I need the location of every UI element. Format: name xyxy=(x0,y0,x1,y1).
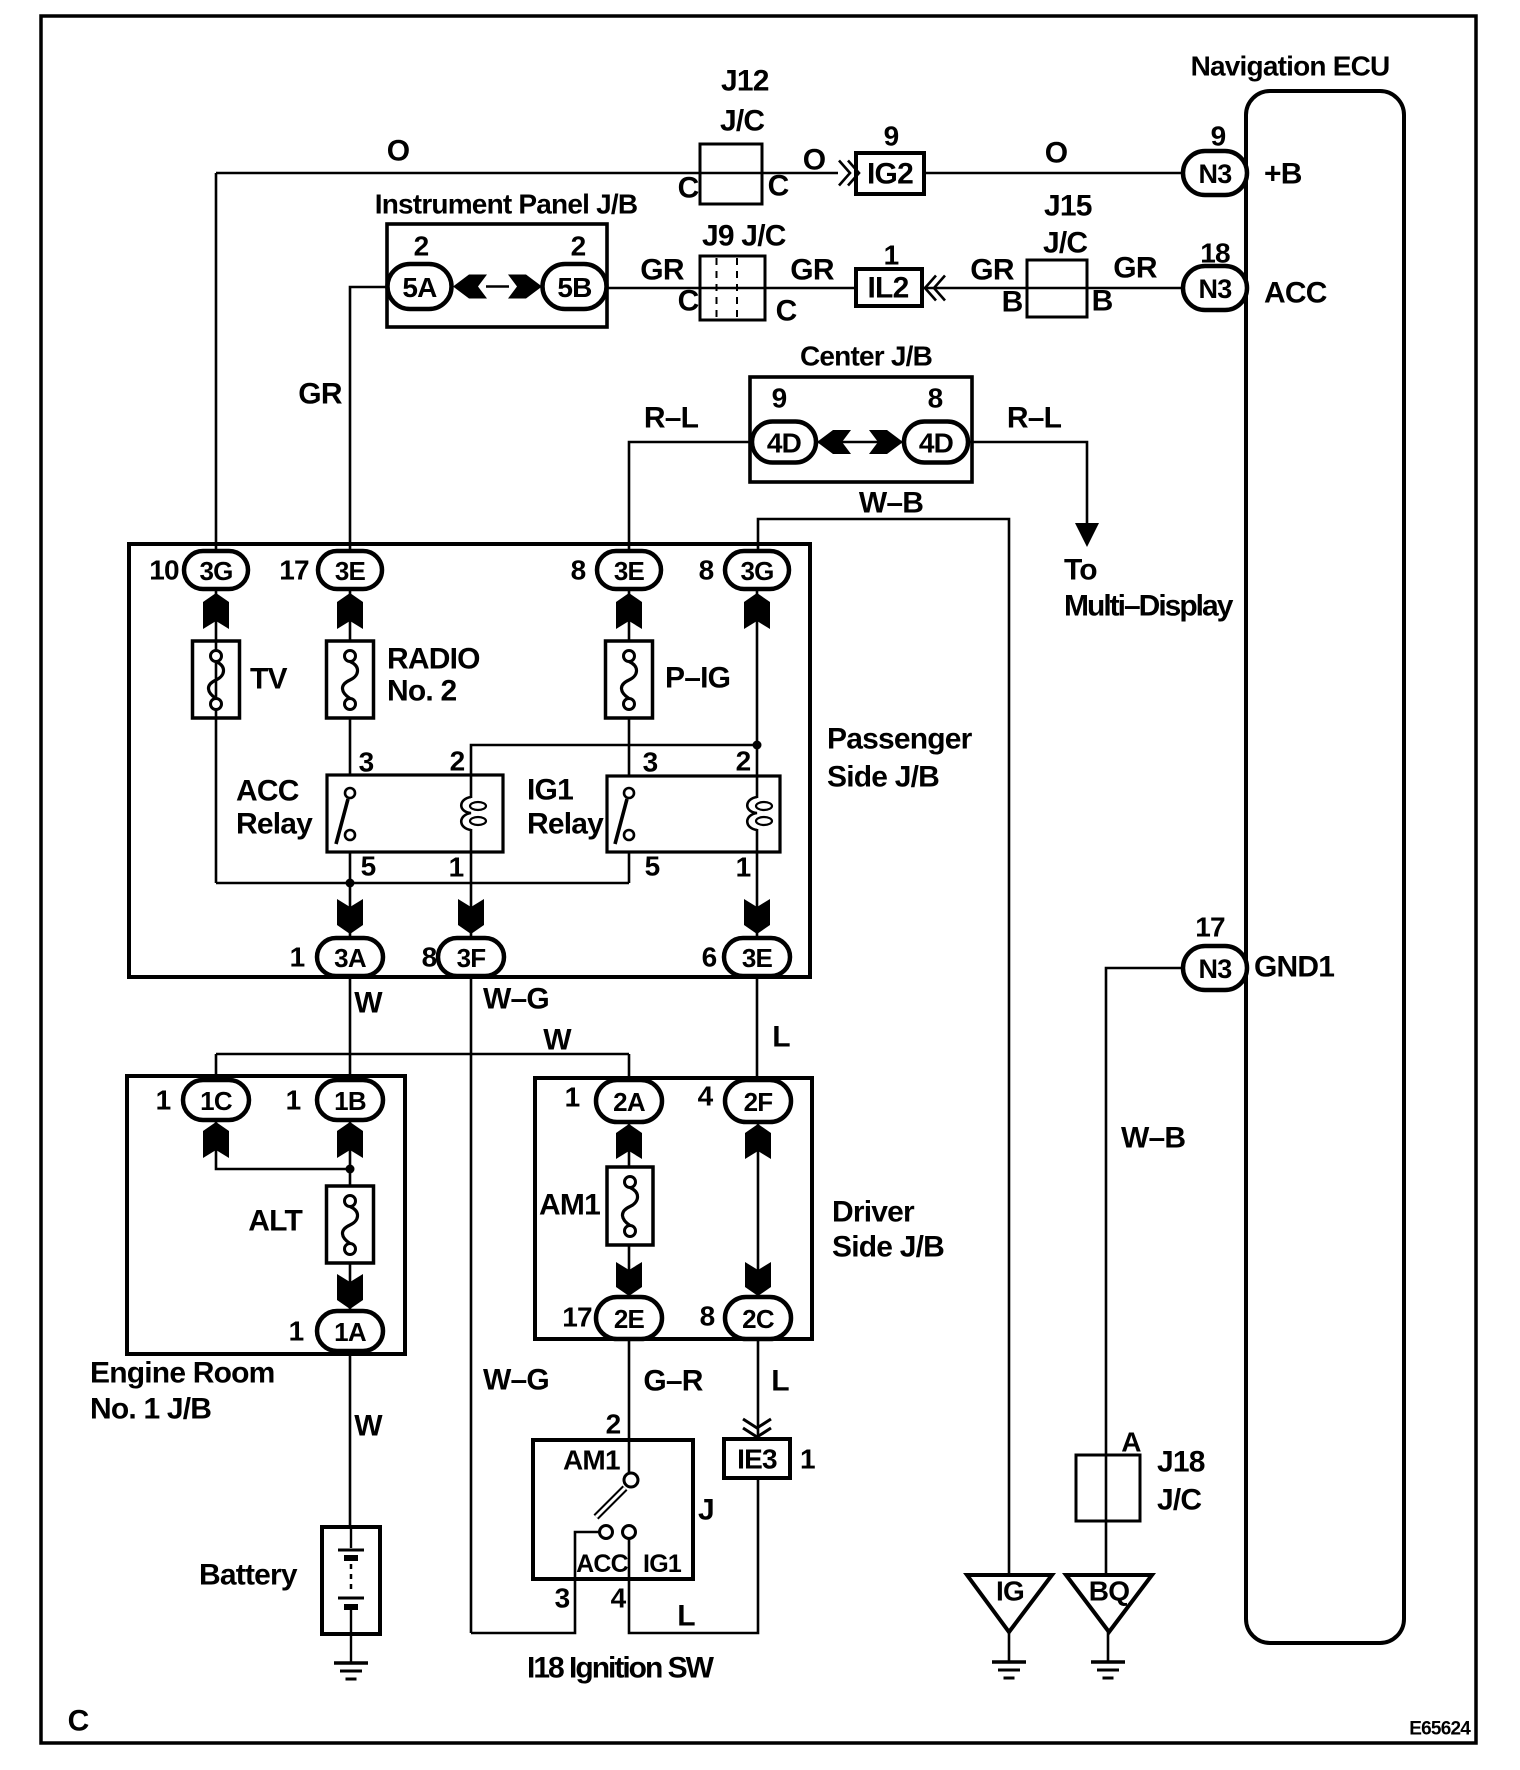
svg-text:3E: 3E xyxy=(614,556,645,586)
svg-text:IG1: IG1 xyxy=(643,1550,682,1578)
svg-text:L: L xyxy=(677,1600,695,1633)
svg-text:5A: 5A xyxy=(402,272,437,303)
svg-text:GND1: GND1 xyxy=(1254,951,1334,984)
svg-text:N3: N3 xyxy=(1199,274,1233,304)
svg-text:1B: 1B xyxy=(334,1086,366,1116)
svg-text:Side J/B: Side J/B xyxy=(827,761,939,794)
svg-text:9: 9 xyxy=(772,383,787,414)
svg-text:8: 8 xyxy=(928,383,943,414)
svg-text:P–IG: P–IG xyxy=(665,662,730,695)
svg-text:TV: TV xyxy=(250,663,288,696)
svg-text:3G: 3G xyxy=(740,556,773,586)
svg-text:O: O xyxy=(803,144,826,177)
svg-text:AM1: AM1 xyxy=(563,1445,620,1476)
svg-text:1: 1 xyxy=(449,852,464,883)
svg-text:17: 17 xyxy=(1195,912,1225,943)
svg-text:No. 2: No. 2 xyxy=(387,675,456,708)
svg-text:Engine Room: Engine Room xyxy=(90,1357,275,1390)
svg-text:1: 1 xyxy=(565,1082,580,1113)
svg-text:Driver: Driver xyxy=(832,1196,915,1229)
svg-text:4: 4 xyxy=(698,1081,714,1112)
svg-text:C: C xyxy=(678,172,699,205)
svg-text:G–R: G–R xyxy=(643,1365,703,1398)
svg-text:4D: 4D xyxy=(767,428,802,459)
svg-text:IG: IG xyxy=(996,1576,1024,1607)
svg-text:Navigation ECU: Navigation ECU xyxy=(1191,51,1390,82)
svg-text:E65624: E65624 xyxy=(1409,1719,1471,1740)
svg-text:IE3: IE3 xyxy=(737,1444,777,1475)
svg-text:BQ: BQ xyxy=(1089,1576,1129,1607)
svg-text:4D: 4D xyxy=(919,428,954,459)
svg-text:B: B xyxy=(1092,285,1113,318)
svg-text:RADIO: RADIO xyxy=(387,643,480,676)
svg-text:2: 2 xyxy=(736,746,751,777)
svg-text:4: 4 xyxy=(611,1583,627,1614)
svg-text:1: 1 xyxy=(736,852,751,883)
svg-text:Side J/B: Side J/B xyxy=(832,1231,944,1264)
svg-text:W: W xyxy=(354,987,383,1020)
svg-text:GR: GR xyxy=(1113,252,1158,285)
svg-text:AM1: AM1 xyxy=(539,1189,600,1222)
svg-text:18: 18 xyxy=(1200,238,1230,269)
svg-text:J18: J18 xyxy=(1157,1446,1205,1479)
svg-text:3G: 3G xyxy=(199,556,232,586)
svg-text:2: 2 xyxy=(450,746,465,777)
svg-text:R–L: R–L xyxy=(644,402,699,435)
svg-text:9: 9 xyxy=(1211,121,1226,152)
svg-text:J/C: J/C xyxy=(1157,1484,1201,1517)
svg-text:1: 1 xyxy=(286,1085,301,1116)
svg-text:8: 8 xyxy=(700,1301,715,1332)
svg-text:L: L xyxy=(771,1365,789,1398)
svg-text:IL2: IL2 xyxy=(868,272,909,305)
svg-text:Battery: Battery xyxy=(199,1559,298,1592)
svg-text:9: 9 xyxy=(884,121,899,152)
svg-text:2F: 2F xyxy=(744,1087,773,1117)
svg-text:Relay: Relay xyxy=(527,808,604,841)
svg-text:GR: GR xyxy=(640,254,685,287)
svg-text:W–G: W–G xyxy=(483,983,549,1016)
svg-text:GR: GR xyxy=(790,254,835,287)
svg-text:8: 8 xyxy=(422,942,437,973)
svg-text:5: 5 xyxy=(645,851,660,882)
svg-text:GR: GR xyxy=(298,378,343,411)
svg-text:A: A xyxy=(1121,1427,1141,1458)
svg-text:2C: 2C xyxy=(742,1304,775,1334)
svg-text:O: O xyxy=(1045,137,1068,170)
svg-text:5B: 5B xyxy=(557,272,591,303)
svg-text:3: 3 xyxy=(359,747,374,778)
svg-text:8: 8 xyxy=(571,555,586,586)
svg-text:17: 17 xyxy=(562,1302,592,1333)
svg-text:3E: 3E xyxy=(742,943,773,973)
svg-text:GR: GR xyxy=(970,254,1015,287)
svg-text:2: 2 xyxy=(571,231,586,262)
svg-text:ACC: ACC xyxy=(576,1550,629,1578)
svg-text:W: W xyxy=(354,1410,383,1443)
svg-text:3: 3 xyxy=(555,1583,570,1614)
svg-text:8: 8 xyxy=(699,555,714,586)
svg-text:1: 1 xyxy=(884,240,899,271)
svg-text:Passenger: Passenger xyxy=(827,723,973,756)
svg-text:J: J xyxy=(698,1494,714,1527)
svg-text:IG2: IG2 xyxy=(867,158,913,191)
svg-text:R–L: R–L xyxy=(1007,402,1062,435)
svg-text:3A: 3A xyxy=(334,943,367,973)
svg-text:3: 3 xyxy=(643,747,658,778)
svg-text:To: To xyxy=(1064,554,1097,587)
svg-text:C: C xyxy=(776,295,797,328)
svg-text:N3: N3 xyxy=(1199,954,1233,984)
svg-text:W–G: W–G xyxy=(483,1364,549,1397)
svg-text:IG1: IG1 xyxy=(527,774,573,807)
svg-text:W–B: W–B xyxy=(1121,1122,1185,1155)
svg-text:2: 2 xyxy=(414,231,429,262)
svg-text:N3: N3 xyxy=(1199,159,1233,189)
svg-text:L: L xyxy=(772,1021,790,1054)
svg-text:6: 6 xyxy=(702,942,717,973)
svg-text:3E: 3E xyxy=(335,556,366,586)
svg-text:ACC: ACC xyxy=(1264,277,1327,310)
svg-text:Center J/B: Center J/B xyxy=(800,341,932,372)
svg-text:2E: 2E xyxy=(614,1304,645,1334)
svg-text:J9 J/C: J9 J/C xyxy=(702,220,786,253)
svg-text:10: 10 xyxy=(149,555,179,586)
svg-text:2A: 2A xyxy=(613,1087,646,1117)
svg-text:ALT: ALT xyxy=(248,1205,302,1238)
svg-text:W–B: W–B xyxy=(859,487,923,520)
svg-text:Multi–Display: Multi–Display xyxy=(1064,590,1234,623)
svg-text:No. 1 J/B: No. 1 J/B xyxy=(90,1393,211,1426)
svg-text:J/C: J/C xyxy=(720,105,764,138)
svg-text:I18 Ignition SW: I18 Ignition SW xyxy=(527,1652,715,1685)
svg-text:+B: +B xyxy=(1264,158,1302,191)
svg-text:5: 5 xyxy=(361,851,376,882)
svg-text:1C: 1C xyxy=(200,1086,233,1116)
svg-text:C: C xyxy=(678,285,699,318)
svg-text:1: 1 xyxy=(289,1316,304,1347)
svg-text:J/C: J/C xyxy=(1043,227,1087,260)
svg-text:1: 1 xyxy=(800,1444,815,1475)
svg-text:O: O xyxy=(387,135,410,168)
svg-text:1: 1 xyxy=(156,1085,171,1116)
svg-text:B: B xyxy=(1002,286,1023,319)
svg-text:J15: J15 xyxy=(1044,190,1092,223)
svg-text:1: 1 xyxy=(290,942,305,973)
svg-text:2: 2 xyxy=(606,1409,621,1440)
svg-text:J12: J12 xyxy=(721,65,769,98)
svg-text:Instrument Panel J/B: Instrument Panel J/B xyxy=(375,189,638,220)
svg-text:C: C xyxy=(768,170,789,203)
svg-text:3F: 3F xyxy=(457,943,486,973)
svg-text:Relay: Relay xyxy=(236,808,313,841)
svg-text:17: 17 xyxy=(279,555,309,586)
svg-text:ACC: ACC xyxy=(236,775,299,808)
svg-text:1A: 1A xyxy=(334,1317,367,1347)
svg-text:C: C xyxy=(68,1705,89,1738)
svg-text:W: W xyxy=(543,1024,572,1057)
